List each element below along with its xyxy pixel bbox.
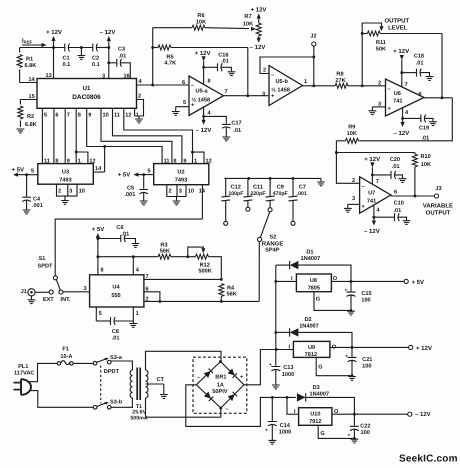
U3 top pin labels 11 8 9 1 12 (44, 159, 96, 165)
svg-text:1000: 1000 (279, 430, 291, 436)
svg-text:+: + (269, 362, 272, 368)
svg-text:S3-a: S3-a (110, 355, 123, 361)
wire +5V to R3 (98, 256, 158, 258)
wire U2 pin5 +5V (118, 172, 154, 179)
svg-text:G: G (318, 364, 322, 370)
op-amp U5-b (269, 66, 303, 106)
svg-text:3: 3 (69, 188, 72, 194)
svg-text:2: 2 (146, 296, 149, 302)
wire DAC pin 12 to U2 pin 1 (124, 108, 204, 163)
svg-text:–: – (191, 83, 194, 89)
svg-text:1N4007: 1N4007 (309, 392, 329, 398)
fuse F1 (57, 347, 73, 366)
svg-text:+: + (347, 433, 350, 439)
svg-text:2: 2 (169, 188, 172, 194)
regulator U10 7912 (294, 408, 339, 426)
svg-text:– 12V: – 12V (100, 29, 116, 36)
svg-text:–: – (271, 73, 274, 79)
capacitor C1 (63, 44, 93, 69)
regulator U9 7812 (289, 341, 337, 358)
svg-text:LEVEL: LEVEL (388, 25, 408, 32)
svg-text:6.8K: 6.8K (25, 63, 37, 69)
svg-text:.001: .001 (125, 192, 136, 198)
svg-text:S1: S1 (39, 256, 46, 262)
pin 3 label and ground (369, 101, 386, 114)
bridge BR1 diamond (196, 360, 244, 409)
svg-text:C13: C13 (283, 365, 293, 371)
svg-text:10K: 10K (196, 20, 206, 26)
diode bridge top-left (arrow to top corner) (204, 368, 213, 377)
resistor R5 (153, 45, 248, 67)
switch S1 pole (53, 276, 57, 280)
svg-text:6: 6 (394, 190, 397, 196)
ground under U2 (173, 201, 181, 205)
svg-text:4: 4 (139, 79, 143, 85)
IC U2 7493 (154, 164, 209, 185)
T1 labels (130, 404, 148, 422)
svg-text:100pF: 100pF (228, 191, 243, 197)
S2 labels (262, 235, 284, 254)
svg-text:C16: C16 (218, 53, 228, 59)
svg-text:– 12V: – 12V (415, 411, 431, 418)
svg-text:7: 7 (146, 274, 149, 280)
wire + rail vertical to D1 D2 (274, 265, 277, 349)
resistor R9 (336, 125, 358, 144)
svg-text:8: 8 (173, 159, 176, 165)
wire U3 pin14 up to DAC9 line (93, 171, 104, 173)
wire U10 ground pin (318, 425, 356, 440)
resistor R4 (219, 278, 237, 303)
capacitor C10 (374, 200, 407, 221)
ground under C14 (268, 440, 276, 444)
svg-text:C14: C14 (280, 423, 291, 429)
svg-text:11: 11 (114, 113, 120, 119)
svg-text:U4: U4 (112, 284, 120, 290)
svg-text:– 12V: – 12V (196, 127, 212, 134)
svg-text:56K: 56K (160, 249, 170, 255)
svg-text:9: 9 (183, 159, 186, 165)
node +5V above 555 (92, 226, 105, 275)
wire S3-b to T1 primary (111, 398, 132, 407)
svg-text:10K: 10K (347, 131, 357, 137)
svg-text:.01: .01 (221, 59, 229, 65)
svg-text:.001: .001 (297, 191, 307, 197)
svg-text:50K: 50K (376, 46, 386, 52)
svg-text:5: 5 (183, 100, 186, 106)
capacitor C13 (269, 350, 294, 385)
capacitor C11 (243, 178, 265, 211)
svg-text:C22: C22 (360, 423, 370, 429)
capacitor C4 (22, 175, 43, 210)
capacitor C21 (345, 347, 372, 375)
svg-text:R6: R6 (197, 13, 204, 19)
svg-text:0.1: 0.1 (63, 62, 71, 68)
svg-text:–: – (362, 184, 365, 190)
svg-text:1N4007: 1N4007 (299, 323, 319, 329)
wire R9 down to U7 pin2 (335, 141, 360, 184)
svg-text:BR1: BR1 (215, 375, 226, 381)
svg-text:C10: C10 (394, 200, 404, 206)
wire U9 ground pin (316, 357, 353, 377)
OUTPUT LEVEL label (384, 18, 409, 32)
svg-text:5: 5 (148, 169, 151, 175)
svg-text:R9: R9 (348, 125, 355, 131)
svg-text:C17: C17 (231, 121, 241, 127)
svg-text:U9: U9 (308, 345, 315, 351)
wire U5-b feedback (260, 57, 314, 74)
svg-text:J1: J1 (21, 289, 27, 295)
svg-text:+ 5V: + 5V (412, 279, 425, 286)
svg-text:U3: U3 (62, 170, 69, 176)
svg-text:DAC0806: DAC0806 (72, 94, 101, 101)
svg-text:1A: 1A (217, 382, 224, 388)
svg-text:U2: U2 (177, 170, 184, 176)
wire DAC pin 11 to U2 pin 9 (113, 108, 182, 163)
pin 3 label and ground (344, 196, 360, 212)
wire U2 pin14 clock riser (201, 185, 203, 219)
svg-text:+ 12V: + 12V (364, 156, 380, 163)
wire R11 right to U6 output (441, 34, 443, 98)
svg-text:D1: D1 (306, 249, 313, 255)
ground under C4 (23, 210, 31, 214)
wire U4 pin2 to R4 bottom and S2 (144, 300, 259, 302)
svg-text:7912: 7912 (309, 419, 321, 425)
node +12V above U7 (364, 156, 380, 184)
plug PL1 117VAC (14, 364, 35, 395)
svg-text:6: 6 (146, 287, 149, 293)
svg-text:2: 2 (58, 188, 61, 194)
svg-text:7: 7 (405, 82, 408, 88)
wire DAC pin4 to U5-a (137, 84, 190, 87)
svg-text:1: 1 (78, 159, 81, 165)
U2 top pin labels (164, 159, 212, 165)
svg-text:14: 14 (199, 188, 206, 194)
svg-text:10K: 10K (243, 22, 253, 28)
svg-text:5: 5 (31, 169, 34, 175)
diode bridge bottom-right (arrow to right corner) (228, 392, 237, 401)
IC U1 DAC0806 (37, 79, 137, 109)
wire U7 output to J3 (391, 195, 434, 197)
wire DAC pin 10 to U2 pin 8 (101, 108, 172, 163)
svg-text:U5-b: U5-b (275, 78, 288, 85)
wire DAC pin 7 riser (64, 108, 66, 163)
svg-text:2: 2 (352, 178, 355, 184)
wire feedback node vertical to R5 R6 (151, 28, 154, 85)
wire U2 pins 2 3 10 to ground (167, 185, 186, 201)
DPDT dashed link (101, 366, 120, 404)
wire DAC pin 9 to U2 pin 11 (87, 108, 162, 163)
switch S3-a (93, 355, 122, 365)
node +12V top-left (46, 29, 62, 48)
ground right of C20 (399, 179, 407, 183)
svg-text:9: 9 (88, 113, 91, 119)
wire -12V node to DAC pin 3 (107, 46, 110, 78)
svg-text:4: 4 (208, 111, 212, 117)
resistor R3 (158, 243, 188, 260)
svg-text:7805: 7805 (308, 286, 320, 292)
svg-text:C9: C9 (277, 184, 284, 190)
svg-text:G: G (320, 431, 324, 437)
svg-text:4: 4 (377, 208, 381, 214)
svg-text:4: 4 (136, 268, 140, 274)
diode D1 1N4007 (276, 249, 351, 281)
svg-text:D3: D3 (313, 385, 320, 391)
svg-text:4: 4 (405, 110, 409, 116)
diode D2 1N4007 (276, 317, 352, 347)
svg-text:11: 11 (44, 159, 50, 165)
wire DAC pin 1 riser (134, 108, 136, 116)
svg-text:100: 100 (361, 430, 370, 436)
svg-text:.001: .001 (32, 203, 43, 209)
svg-text:1: 1 (304, 79, 307, 85)
ground right of C16 (228, 72, 236, 76)
svg-text:R4: R4 (227, 285, 235, 291)
svg-text:C20: C20 (390, 157, 400, 163)
svg-text:100: 100 (362, 363, 371, 369)
jack J3 (434, 186, 441, 198)
svg-text:741: 741 (393, 99, 402, 105)
wire S3-a to T1 primary (111, 361, 132, 370)
svg-text:J2: J2 (310, 34, 316, 40)
svg-text:14: 14 (29, 77, 36, 83)
svg-text:3: 3 (84, 286, 87, 292)
svg-text:U10: U10 (310, 412, 320, 418)
wire pin13 riser (52, 46, 55, 78)
svg-text:C5: C5 (127, 185, 134, 191)
svg-text:9: 9 (67, 159, 70, 165)
svg-text:56K: 56K (227, 292, 237, 298)
resistor R6 (153, 13, 256, 31)
svg-text:500K: 500K (198, 269, 211, 275)
svg-text:–: – (388, 87, 391, 93)
svg-text:R11: R11 (376, 40, 386, 46)
svg-text:220pF: 220pF (250, 191, 265, 197)
ground under R2 (17, 129, 25, 133)
svg-text:R8: R8 (336, 72, 343, 78)
svg-text:1000: 1000 (282, 372, 294, 378)
svg-text:C7: C7 (299, 184, 306, 190)
svg-text:12: 12 (89, 159, 95, 165)
wire DAC pin 5 riser (41, 108, 43, 163)
svg-text:.01: .01 (416, 60, 424, 66)
svg-text:R5: R5 (166, 54, 173, 60)
svg-text:U6: U6 (394, 91, 401, 97)
svg-text:R1: R1 (26, 57, 33, 63)
svg-text:10-A: 10-A (60, 354, 72, 360)
wire bridge - output rail (186, 385, 296, 427)
diode bridge bottom-left (arrow to bottom corner) (204, 392, 213, 401)
svg-text:14: 14 (95, 166, 102, 172)
svg-text:1: 1 (136, 311, 139, 317)
wire U8 ground pin (314, 292, 352, 312)
svg-text:12: 12 (206, 159, 212, 165)
svg-text:+ 12V: + 12V (46, 29, 62, 36)
ground under pin1 (135, 116, 143, 123)
node +12V above U6 (393, 48, 409, 87)
svg-text:7: 7 (225, 89, 228, 95)
svg-text:G: G (316, 296, 320, 302)
node Iref current arrow (22, 38, 47, 48)
pin 5 label and ground (172, 100, 189, 116)
jack J1 (21, 289, 50, 296)
svg-text:SPDT: SPDT (38, 264, 54, 270)
svg-text:470pF: 470pF (273, 191, 288, 197)
capacitor C19 (403, 114, 433, 141)
svg-text:+: + (345, 353, 348, 359)
svg-text:SP4P: SP4P (265, 248, 280, 254)
svg-text:U5-a: U5-a (195, 89, 208, 95)
switch S1 arm (56, 280, 60, 291)
capacitor C7 (289, 178, 307, 225)
svg-text:7812: 7812 (305, 352, 317, 358)
node R11 to pin2 junction (361, 84, 364, 87)
svg-text:J3: J3 (435, 186, 441, 192)
svg-text:U8: U8 (310, 278, 317, 284)
node +12V above U5-a (195, 50, 211, 84)
VARIABLE OUTPUT label (423, 202, 453, 216)
bridge BR1 dashed box (193, 357, 247, 413)
ground under C22 (351, 439, 359, 443)
wire U4 pin1 riser (132, 307, 134, 321)
diode D3 1N4007 (297, 385, 355, 413)
svg-text:SeekIC.com: SeekIC.com (399, 454, 458, 465)
svg-text:10: 10 (79, 188, 85, 194)
svg-text:2: 2 (138, 94, 141, 100)
svg-text:3: 3 (179, 188, 182, 194)
ground under J1 (28, 296, 36, 304)
wire U4 pin4 riser (132, 255, 135, 275)
op-amp U5-a (189, 76, 224, 116)
wire U5-b output (303, 85, 336, 87)
svg-text:7493: 7493 (59, 178, 71, 184)
svg-text:C6: C6 (116, 225, 123, 231)
svg-text:R3: R3 (160, 243, 167, 249)
transformer T1 core (137, 368, 140, 401)
svg-text:8: 8 (78, 113, 81, 119)
svg-text:6: 6 (55, 113, 58, 119)
svg-text:.01: .01 (121, 231, 129, 237)
svg-text:.01: .01 (392, 164, 400, 170)
svg-text:8: 8 (101, 268, 104, 274)
wire U3 pin5 +5V (11, 166, 37, 176)
svg-text:C12: C12 (231, 184, 241, 190)
svg-text:7: 7 (67, 113, 70, 119)
svg-text:U1: U1 (83, 85, 91, 92)
svg-text:2: 2 (263, 68, 266, 74)
capacitor C6 (98, 225, 136, 243)
U2 bottom pin labels (169, 188, 195, 194)
wire DAC pin2 to ground (135, 100, 144, 117)
svg-text:VARIABLE: VARIABLE (423, 202, 453, 209)
svg-text:8: 8 (55, 159, 58, 165)
svg-text:R2: R2 (27, 114, 34, 120)
resistor R8 (335, 72, 386, 89)
svg-text:3: 3 (262, 91, 265, 97)
svg-text:OUTPUT: OUTPUT (426, 210, 451, 217)
svg-text:741: 741 (367, 198, 376, 204)
svg-text:7493: 7493 (175, 178, 187, 184)
svg-text:IREF: IREF (22, 38, 32, 45)
ground under U4 pin1 (129, 321, 137, 327)
svg-text:50PIV: 50PIV (212, 389, 228, 395)
wire U4 pin6 (144, 292, 161, 303)
svg-text:– 12V: – 12V (394, 130, 410, 137)
svg-text:+ 5V: + 5V (118, 172, 131, 179)
wire DAC pin 6 riser (53, 108, 55, 163)
wire U8 output to +5V (331, 279, 424, 286)
wire U4 pin7 to R4 (144, 278, 221, 280)
svg-text:6: 6 (182, 80, 185, 86)
svg-text:117VAC: 117VAC (14, 371, 34, 377)
capacitor C17 (204, 116, 242, 136)
ground under C13 (272, 385, 280, 389)
capacitor C5 (125, 175, 149, 201)
svg-text:+ 12V: + 12V (251, 7, 267, 14)
svg-text:1N4007: 1N4007 (301, 256, 321, 262)
svg-text:C3: C3 (118, 47, 125, 53)
ground between C1 C2 (78, 46, 86, 59)
wire U3 pins 2 3 10 to ground (57, 184, 78, 200)
svg-text:S2: S2 (269, 235, 276, 241)
contact EXT (49, 290, 53, 294)
capacitor C18 (402, 54, 430, 77)
ground right of C18 (426, 77, 434, 81)
IC U4 555 (90, 275, 144, 307)
svg-text:0.1: 0.1 (92, 62, 100, 68)
EXT INT labels (43, 297, 71, 303)
svg-text:555: 555 (111, 293, 120, 299)
wire U6 pin4 (394, 108, 410, 137)
node -12V top (100, 29, 116, 48)
svg-text:+ 5V: + 5V (11, 166, 24, 173)
wire R10 branch (336, 152, 415, 154)
svg-text:3: 3 (352, 196, 355, 202)
svg-text:F1: F1 (62, 347, 69, 353)
bridge polarity labels (197, 375, 244, 413)
svg-text:OUTPUT: OUTPUT (384, 18, 409, 25)
svg-text:RANGE: RANGE (262, 240, 284, 247)
svg-text:100: 100 (361, 297, 370, 303)
wire U6 output to R9 (359, 96, 453, 140)
wire clock bus to S1 (55, 219, 202, 276)
potentiometer R12 (186, 247, 221, 279)
diode bridge top-right (arrow to right corner) (228, 368, 237, 377)
svg-text:DPDT: DPDT (104, 369, 120, 375)
svg-text:6: 6 (419, 92, 422, 98)
svg-text:1: 1 (194, 159, 197, 165)
capacitor C2 (92, 44, 109, 69)
svg-text:+ 12V: + 12V (195, 50, 211, 57)
wire secondary bottom to bridge AC2 (146, 398, 221, 417)
ground right of rail (317, 178, 325, 185)
wire U7 pin4 (364, 205, 380, 235)
wire U10 output to -12V (332, 411, 431, 418)
capacitor C3 (109, 47, 131, 79)
svg-text:10K: 10K (421, 162, 431, 168)
svg-text:– 12V: – 12V (250, 44, 266, 51)
svg-text:C8: C8 (112, 329, 119, 335)
capacitor C12 (221, 178, 243, 225)
svg-text:S3-b: S3-b (110, 398, 123, 405)
S1 labels (38, 256, 54, 270)
wire R11 left node down to U6 pin2 (361, 34, 363, 86)
svg-text:U7: U7 (368, 191, 375, 197)
svg-text:INT.: INT. (61, 297, 71, 303)
svg-text:4.7K: 4.7K (164, 61, 176, 67)
svg-text:+: + (265, 428, 268, 434)
IC U3 7493 (38, 164, 94, 185)
svg-text:PL1: PL1 (18, 364, 28, 370)
